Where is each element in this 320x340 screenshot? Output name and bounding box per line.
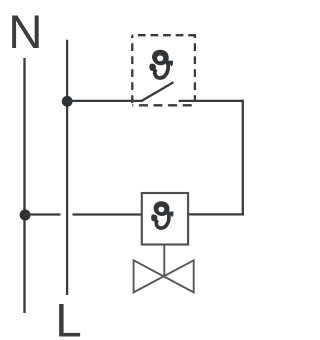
junction dot on N conductor xyxy=(20,210,31,221)
wire from switch fixed contact to top-right corner xyxy=(179,100,244,102)
wire right vertical segment down to actuator loop xyxy=(242,100,244,216)
svg-text:L: L xyxy=(55,294,81,340)
wire from actuator box right side to right vertical segment xyxy=(188,213,244,215)
junction dot on L conductor xyxy=(62,96,73,107)
wire L conductor (second vertical line) xyxy=(66,40,68,295)
thermostat switch blade (open contact) xyxy=(141,82,174,101)
actuator box (thermal actuator) xyxy=(142,193,188,245)
wire from crossover to actuator box xyxy=(73,213,142,215)
thermostat dashed enclosure left edge xyxy=(131,35,133,104)
wire actuator stem to valve xyxy=(163,245,165,277)
thermostat temperature symbol ϑ xyxy=(149,50,173,78)
thermostat dashed enclosure top edge xyxy=(132,34,196,36)
wire N conductor (left vertical line) xyxy=(23,58,25,313)
valve body (two-triangle valve symbol) xyxy=(134,260,194,292)
actuator temperature symbol ϑ xyxy=(151,201,173,228)
wire from L junction to thermostat switch pivot xyxy=(67,100,142,102)
wire from N junction toward crossover xyxy=(25,213,60,215)
thermostat dashed enclosure right edge xyxy=(194,35,196,100)
thermostat dashed enclosure bottom edge xyxy=(132,104,195,106)
svg-text:N: N xyxy=(8,6,42,59)
